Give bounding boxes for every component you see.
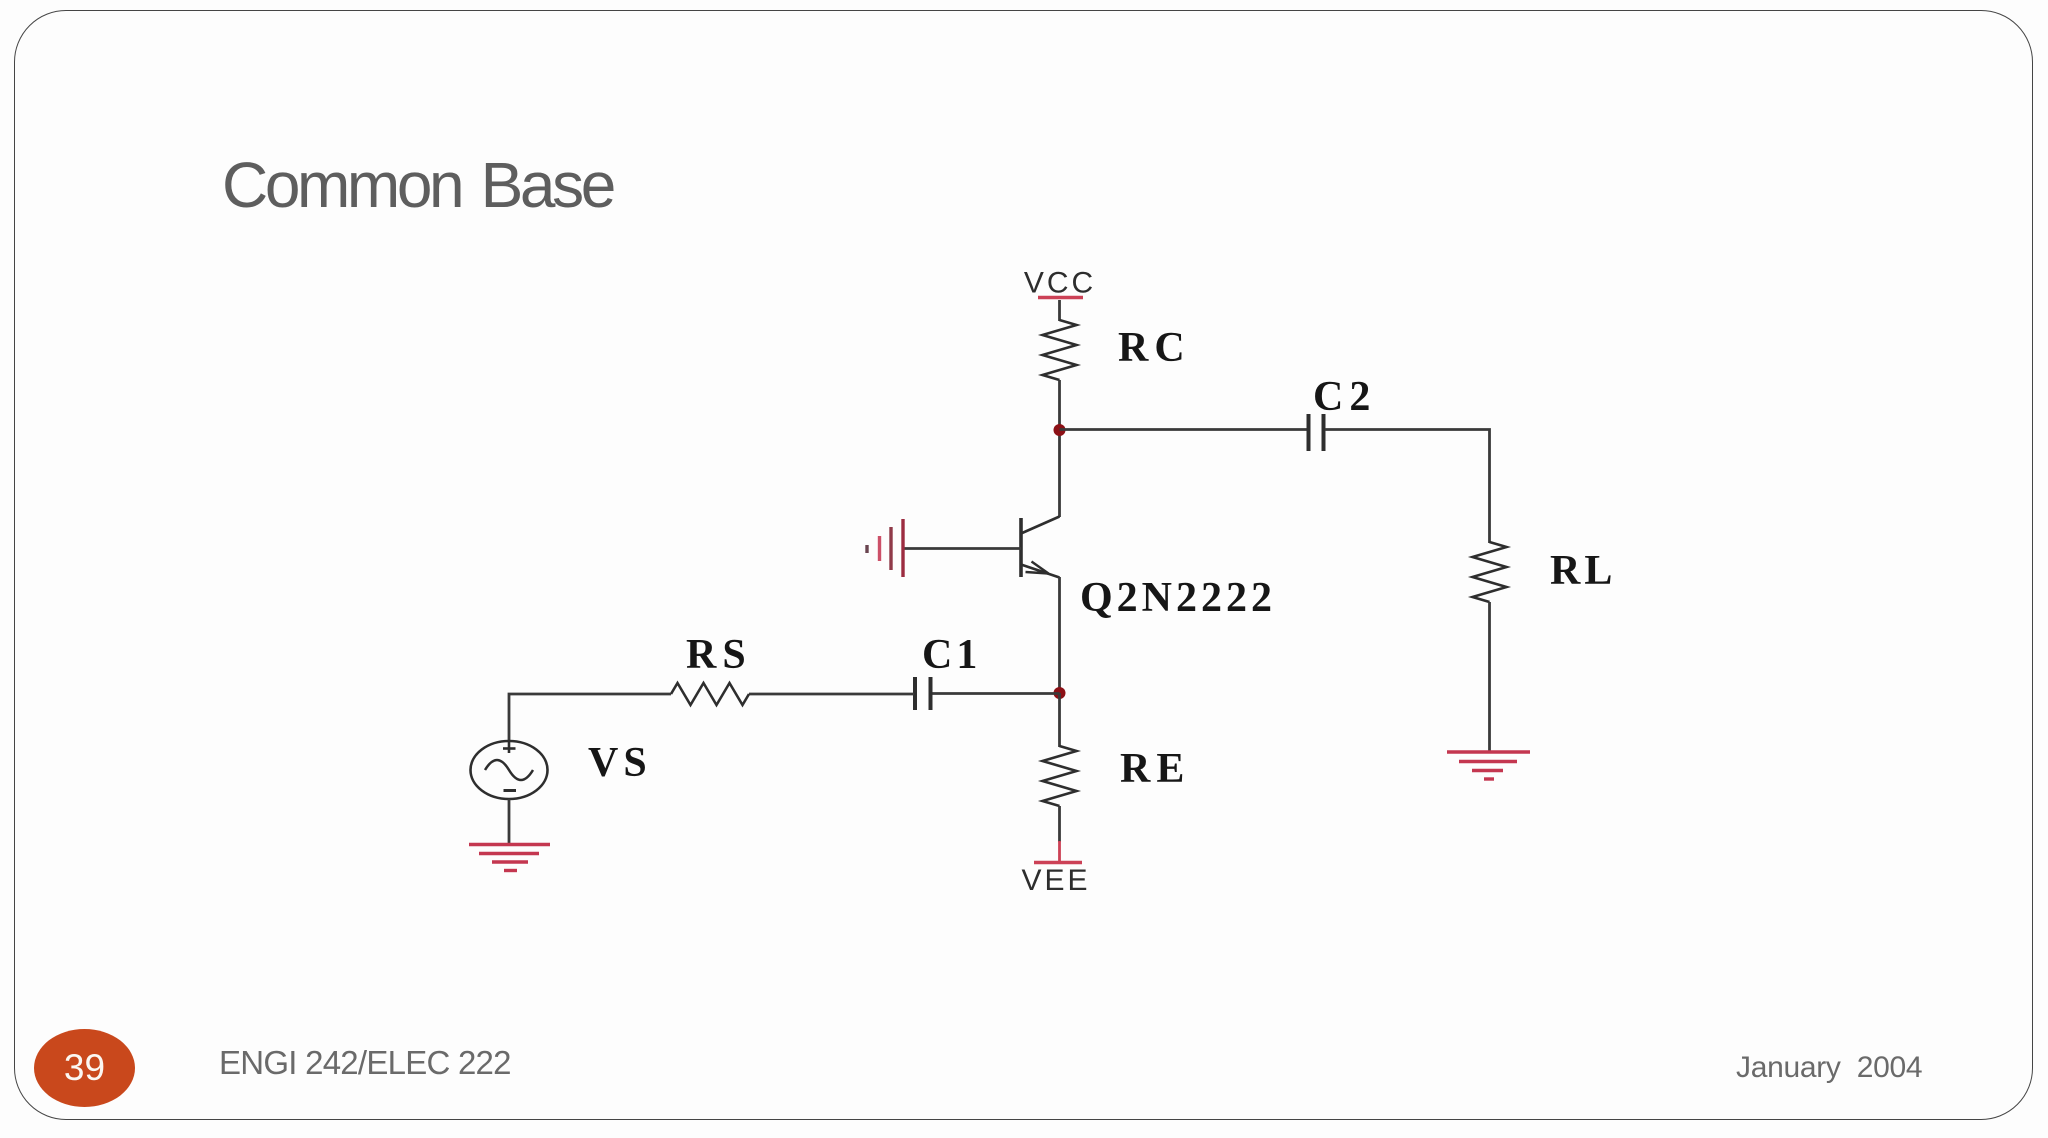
node emitter junction — [1054, 687, 1066, 699]
ground at RL — [1447, 752, 1530, 779]
node collector junction — [1054, 424, 1066, 436]
ground at VS — [469, 845, 550, 871]
resistor RL — [1473, 542, 1507, 602]
wire node to C1 — [931, 692, 1060, 695]
transistor Q1 Q2N2222 — [1021, 517, 1060, 578]
emitter wire — [1058, 577, 1061, 694]
label RL — [1550, 548, 1616, 594]
label RC — [1118, 325, 1191, 371]
svg-text:VEE: VEE — [1021, 864, 1090, 897]
base wire — [903, 547, 1021, 550]
wire node to RE — [1058, 693, 1061, 747]
capacitor C2 — [1309, 414, 1324, 451]
VCC power tick — [1038, 296, 1083, 300]
footer date text — [1736, 1051, 1922, 1085]
capacitor C1 — [915, 677, 931, 710]
svg-text:RL: RL — [1550, 548, 1616, 594]
slide title — [222, 148, 613, 222]
source VS — [471, 741, 548, 799]
svg-text:C2: C2 — [1313, 374, 1376, 420]
net label VCC — [1024, 267, 1096, 300]
net label VEE — [1021, 864, 1090, 897]
svg-text:RC: RC — [1118, 325, 1191, 371]
label C1 — [922, 632, 981, 678]
svg-text:Q2N2222: Q2N2222 — [1080, 575, 1276, 621]
svg-text:VCC: VCC — [1024, 267, 1096, 300]
wire RC to transistor collector through node — [1058, 380, 1061, 517]
wire node to C2 — [1060, 428, 1308, 431]
svg-text:VS: VS — [588, 740, 652, 786]
wire VCC to RC — [1058, 300, 1061, 321]
svg-text:C1: C1 — [922, 632, 981, 678]
wire C2 to RL — [1325, 430, 1490, 544]
resistor RS — [671, 683, 749, 705]
wire RS to VS — [509, 694, 671, 742]
page number badge 39 — [34, 1029, 135, 1107]
VEE power tick — [1034, 861, 1082, 865]
svg-text:RE: RE — [1120, 746, 1190, 792]
ground at base (rotated) — [867, 519, 903, 577]
footer course text — [219, 1044, 511, 1082]
resistor RE — [1043, 746, 1077, 806]
label RS — [686, 632, 752, 678]
label Q2N2222 — [1080, 575, 1276, 621]
wire RE to VEE — [1058, 806, 1061, 861]
label C2 — [1313, 374, 1376, 420]
svg-text:RS: RS — [686, 632, 752, 678]
wire RL to ground — [1488, 602, 1491, 752]
label VS — [588, 740, 652, 786]
resistor RC — [1043, 320, 1077, 380]
wire C1 to RS — [749, 693, 914, 696]
wire VS to ground — [508, 799, 511, 845]
label RE — [1120, 746, 1190, 792]
